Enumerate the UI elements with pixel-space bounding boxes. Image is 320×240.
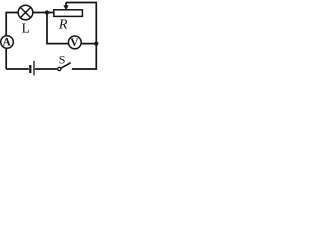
svg-text:R: R <box>58 18 68 33</box>
svg-text:S: S <box>59 53 66 67</box>
svg-text:V: V <box>70 37 79 49</box>
svg-text:L: L <box>22 21 30 36</box>
svg-text:A: A <box>3 37 11 49</box>
